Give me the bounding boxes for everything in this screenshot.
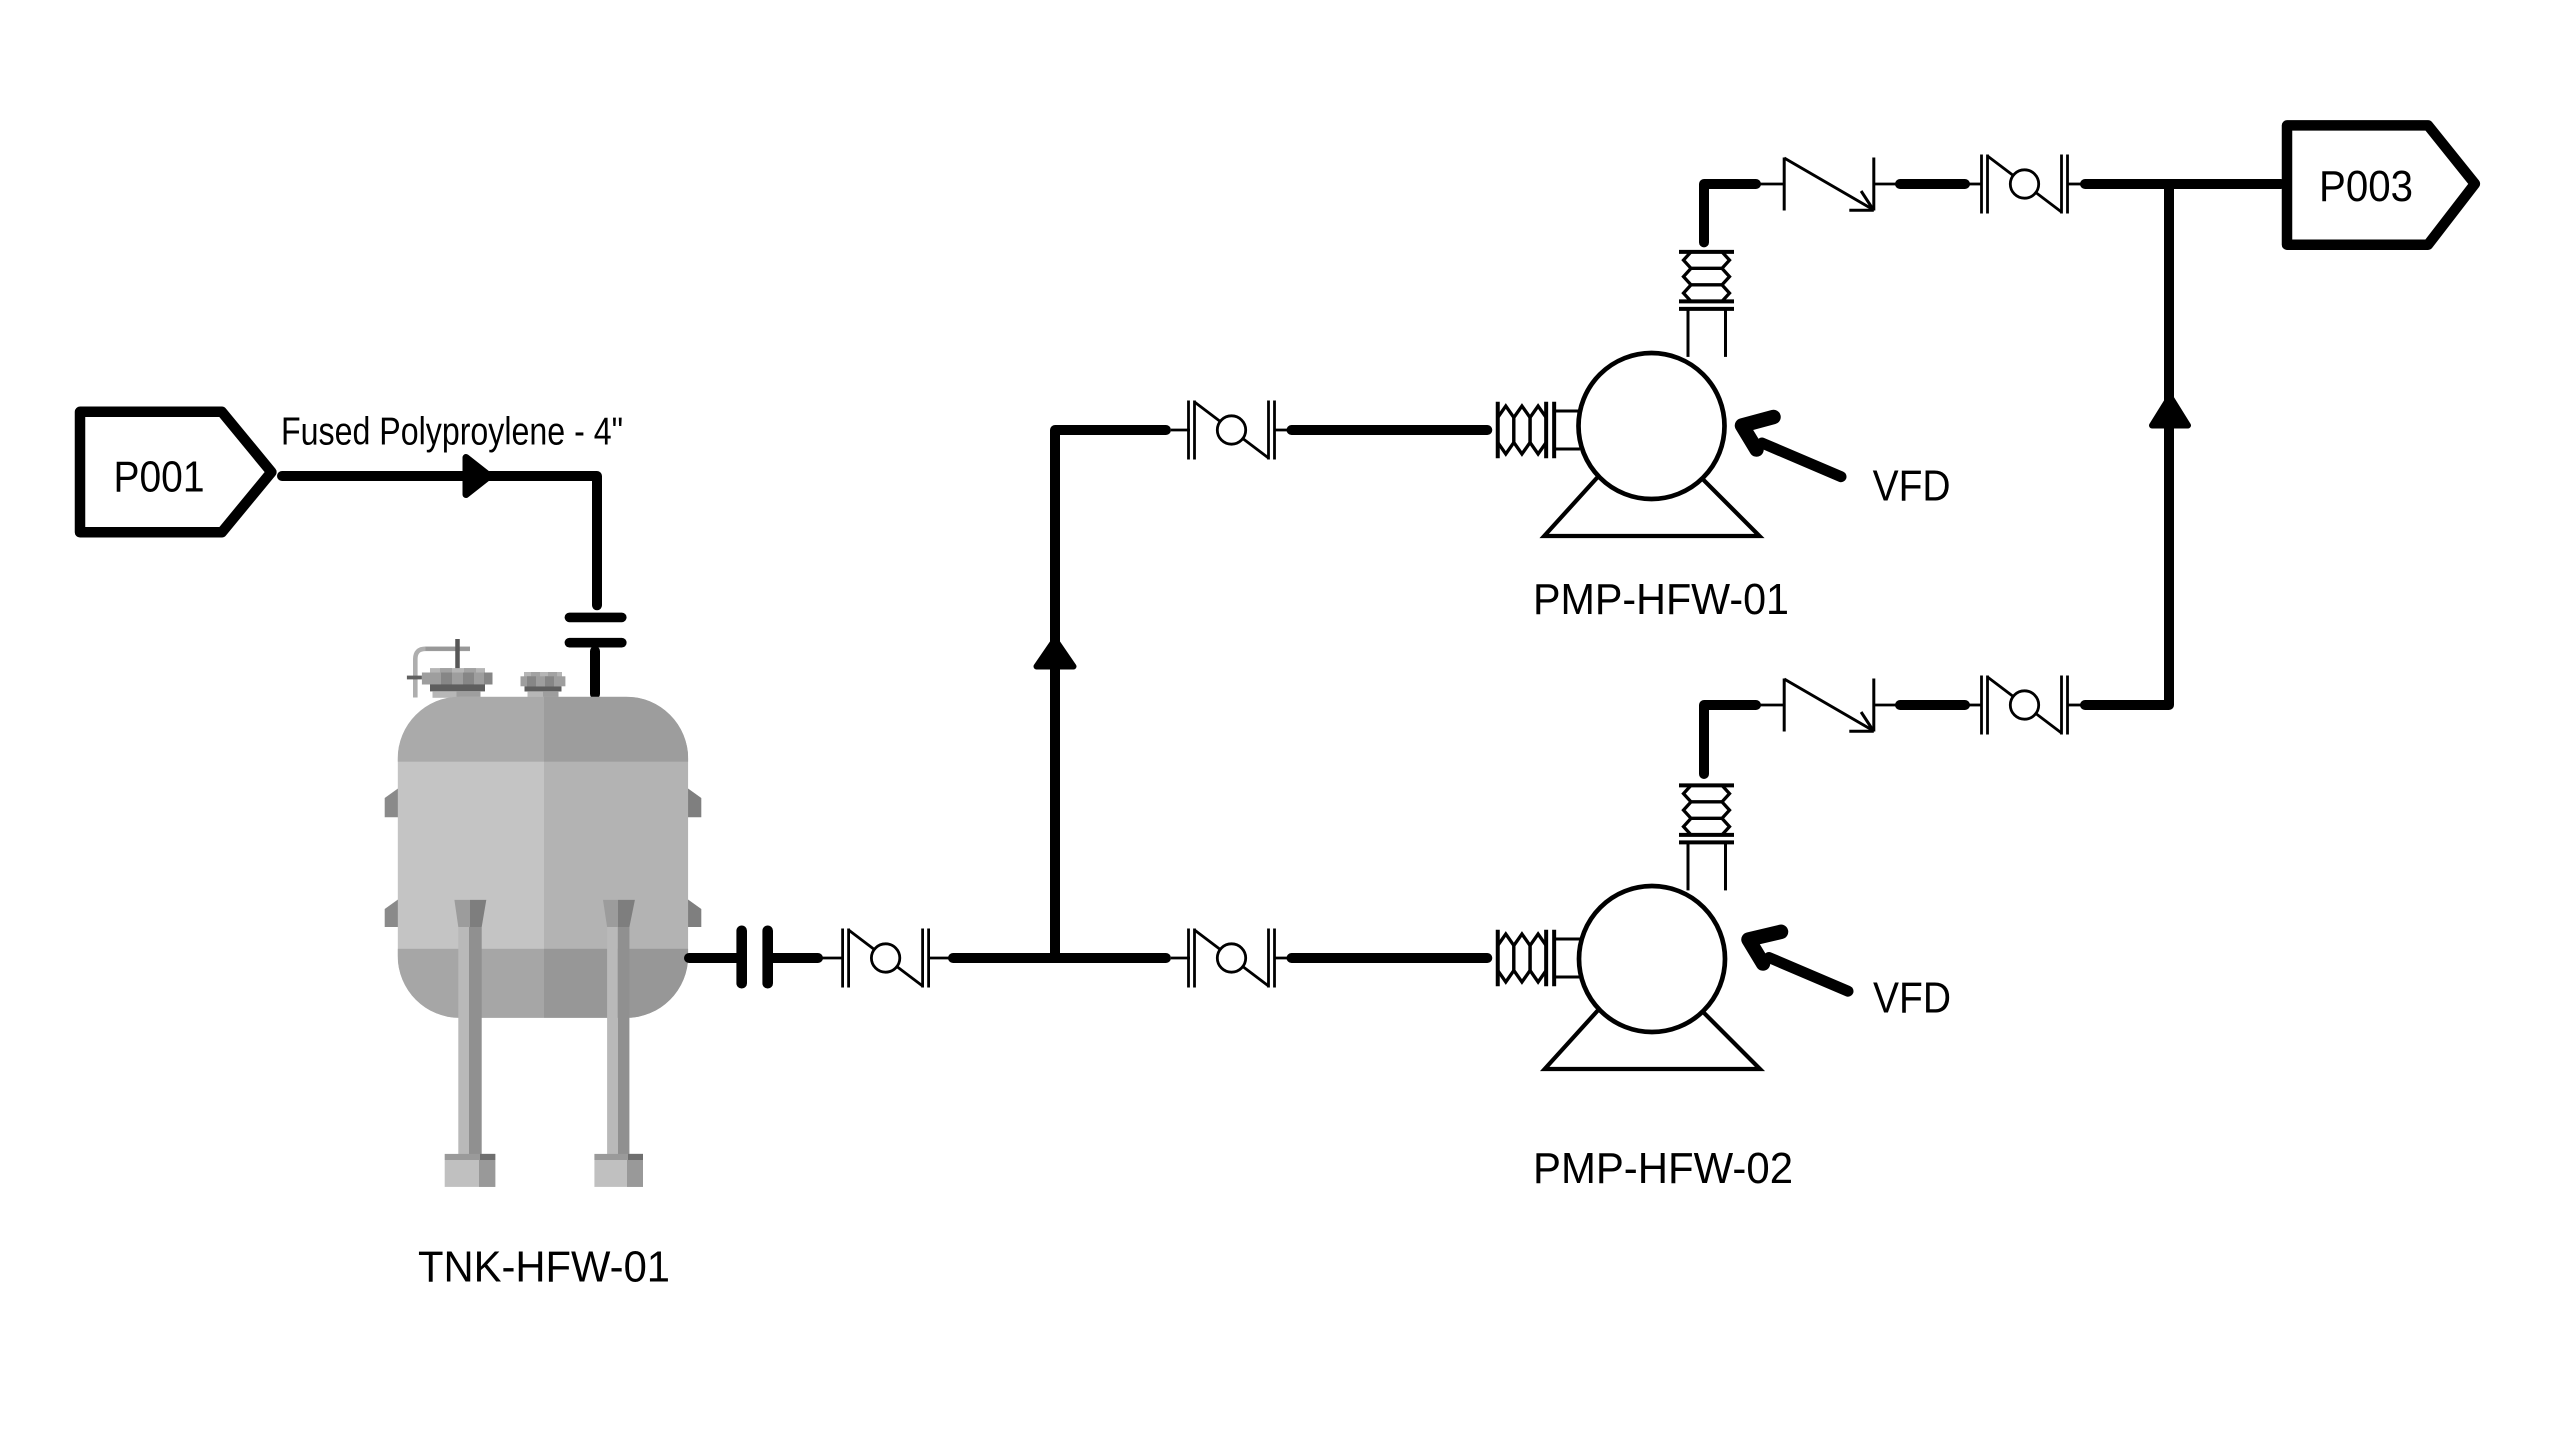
- wire valve V3 to pump 1 bellows: [1274, 429, 1488, 432]
- svg-text:VFD: VFD: [1873, 974, 1951, 1023]
- wire tank outlet: [689, 953, 740, 963]
- valve V3 pump 1 suction: [1189, 401, 1275, 460]
- flexible connector pump 1 suction bellows: [1498, 402, 1580, 459]
- vessel TNK-HFW-01: [385, 639, 702, 1187]
- wire pump 2 discharge corner: [1704, 705, 1756, 774]
- pump PMP-HFW-01: [1544, 353, 1759, 536]
- svg-text:P001: P001: [114, 453, 205, 502]
- wire branch riser to pump 1 row: [1055, 430, 1166, 953]
- wire branch to valve V3: [1171, 429, 1190, 432]
- valve V2 pump 2 suction: [1189, 929, 1275, 988]
- svg-text:VFD: VFD: [1873, 462, 1951, 511]
- pump PMP-HFW-02: [1545, 886, 1760, 1069]
- wire valve V5 to riser: [2068, 189, 2170, 705]
- flexible connector pump 2 suction bellows: [1498, 930, 1580, 987]
- wire tee to valve V2: [1171, 957, 1190, 960]
- valve V5 pump 2 discharge: [1982, 676, 2068, 735]
- wire valve V2 to pump 2 bellows: [1274, 957, 1488, 960]
- wire inlet stub into tank: [590, 651, 600, 694]
- check valve CV2 pump 2: [1784, 679, 1874, 732]
- flow arrow on discharge riser: [2152, 397, 2188, 426]
- valve V4 pump 1 discharge: [1982, 155, 2068, 214]
- svg-text:P003: P003: [2319, 162, 2413, 211]
- VFD arrow pump 1: [1742, 417, 1841, 477]
- flow arrow on feed pipe: [466, 458, 490, 495]
- flange pair tank inlet: [565, 613, 627, 648]
- wire to check valve CV2: [1757, 704, 1786, 707]
- wire check valve CV1 to valve V4: [1874, 183, 1982, 186]
- wire outlet to suction valve: [773, 953, 844, 963]
- svg-text:TNK-HFW-01: TNK-HFW-01: [418, 1242, 670, 1291]
- flow arrow on branch riser: [1037, 640, 1074, 667]
- flexible connector pump 2 discharge bellows: [1679, 785, 1734, 890]
- svg-text:PMP-HFW-02: PMP-HFW-02: [1533, 1144, 1793, 1193]
- flexible connector pump 1 discharge bellows: [1679, 252, 1734, 357]
- off-page connector P001: [80, 412, 271, 533]
- wire valve V1 to tee: [928, 957, 1166, 960]
- VFD arrow pump 2: [1749, 932, 1849, 991]
- flange pair tank outlet: [736, 926, 773, 989]
- check valve CV1 pump 1: [1784, 158, 1874, 211]
- wire to check valve CV1: [1757, 183, 1786, 186]
- off-page connector P003: [2287, 125, 2475, 244]
- valve V1 tank suction: [843, 929, 929, 988]
- wire feed pipe from P001 into tank: [282, 476, 597, 605]
- wire valve V4 to header: [2068, 183, 2282, 186]
- svg-text:Fused Polyproylene - 4": Fused Polyproylene - 4": [281, 411, 623, 454]
- svg-text:PMP-HFW-01: PMP-HFW-01: [1533, 575, 1789, 624]
- wire check valve CV2 to valve V5: [1874, 704, 1982, 707]
- wire pump 1 discharge corner: [1704, 184, 1756, 242]
